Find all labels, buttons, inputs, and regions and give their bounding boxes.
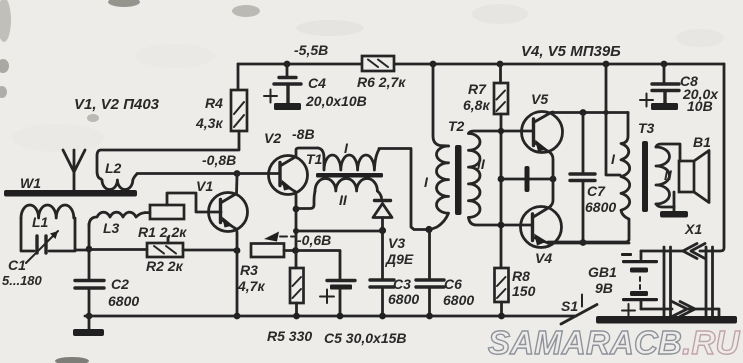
wire divider to chassis bar [501,178,552,181]
wire top supply rail [238,63,724,66]
node detector out [379,227,386,234]
wire T3 secondary top to speaker [656,144,680,161]
node B emitter V1 [234,247,241,254]
wire L2 to node A [137,172,237,175]
bus bar bottom right [596,316,737,324]
node C emitter V2 [292,247,299,254]
wire rail to T3 mid tap [606,64,620,175]
wire V4 emitter bus [548,242,629,245]
node T2 primary bottom [425,226,432,233]
transformer T1 secondary [315,178,377,191]
wire R2 to node B [183,249,237,252]
wire T1 secondary left to V2 emitter [296,191,315,209]
capacitor C7 [570,174,595,181]
wire L1 to bus [75,249,89,252]
capacitor C3 [370,280,394,287]
annotation arrow -0,6V [264,232,296,242]
wire node C to C5 [295,251,340,280]
resistor R1 potentiometer [150,205,184,219]
wire R4 to L2 [97,131,239,179]
wire bus to R2 [89,248,147,251]
switch S1 [561,295,597,325]
node L1/R2 tap [86,246,93,253]
ground left [73,316,104,336]
wire chevron to bar [687,309,719,316]
node R7 base V5 [498,128,504,134]
wire R3 to node C [284,249,295,252]
node divider mid [498,176,505,183]
resistor R7 [494,83,508,114]
wire detector down [381,230,384,316]
wire bottom common rail [85,315,576,318]
transistor V2 [269,156,308,195]
resistor R2 [147,243,183,257]
inductor L2 [102,174,137,190]
capacitor C5 [320,281,355,304]
wire V2 collector to T1 [296,148,318,157]
wire V1 emitter down [236,229,238,251]
wire C7 leads [582,113,585,242]
wire chevron to battery [641,250,683,253]
core T3 [642,141,648,212]
resistor R4 [231,90,247,131]
speaker B1 [674,151,709,208]
transistor V4 [521,207,562,248]
node rail-C4 [284,61,291,68]
resistor R3 [251,244,284,258]
connector X1 socket lines [664,247,713,316]
battery GB1 [621,251,658,317]
wire V5 collector to T3 [553,111,628,114]
wire C5 to rail [339,289,342,316]
node emitter V5 collector V4 [550,176,557,183]
chassis bar [525,166,530,192]
wire L1 loop left [21,218,34,251]
connector X1 chevron top [683,244,705,259]
wire T2 secondary top to V5 base [469,131,534,134]
wire V5 emitter to V4 collector [550,153,553,207]
node T1 secondary tap [293,206,300,213]
wire rail drop to R4 [237,64,240,90]
wire node to C6 [428,229,431,316]
transformer T3 primary [548,113,630,243]
node rail-T3tap [603,61,610,68]
connector X1 chevron bottom [672,302,695,317]
resistor R6 [362,56,394,71]
wire R8 to rail [500,302,503,316]
wire V1 collector up [235,176,238,194]
wire T1 primary to down line [379,149,427,230]
core T1 [316,173,383,178]
capacitor C2 [75,281,104,289]
wire rail to R7 [499,64,502,83]
capacitor C6 [416,280,444,287]
wire detector to V2 emitter [296,230,382,233]
wire node A to V2 base [237,172,279,175]
node rail tap crossing [603,110,608,115]
diode V3 [373,201,392,231]
node rail-T2 [430,61,437,68]
node base V4 [498,222,505,229]
wire rail to T2 primary [433,64,449,146]
resistor R5 [290,268,304,303]
node rail-R7 [497,61,504,68]
transistor V1 [209,193,248,232]
node detector return [293,228,299,234]
node bus-rail left [86,313,93,320]
wire left bus vertical [88,224,91,316]
wire V2 emitter down [295,192,296,251]
wire right rail [700,64,724,251]
transformer T3 secondary [656,147,670,204]
node rail-C8 [661,61,668,68]
resistor R8 [495,268,509,302]
core T2 [455,145,462,215]
capacitor C8 [640,64,679,110]
transformer T2 secondary [469,134,481,218]
node A collector V1 [234,170,241,177]
node C7 top [580,109,587,116]
wire T2 secondary bottom to V4 base [469,218,533,226]
wire R2 stub [167,238,170,244]
wire R7 down divider [500,114,503,268]
ferrite rod core L1/L3 [4,190,137,197]
transformer T2 primary [431,146,449,230]
wire R1 wiper to V1 base [167,193,221,212]
capacitor C4 [264,64,301,110]
antenna W1 [63,150,85,190]
inductor L1 [21,205,74,218]
ground speaker [660,206,688,218]
wire battery to chevron bottom [641,308,672,311]
inductor L3 [89,212,145,226]
wire V5 collector [551,111,553,114]
transformer T1 primary [318,148,379,170]
capacitor C1 variable [26,231,58,263]
wire T1 secondary right to diode [377,191,381,198]
node C7 bottom [580,239,587,246]
wire T3 secondary bottom [656,204,674,207]
wire L3 to R1 [145,211,150,214]
transistor V5 [522,112,563,153]
wire node B down to rail [236,250,239,316]
wire R5 to rail [295,251,298,316]
wire L1 loop right [49,218,75,251]
